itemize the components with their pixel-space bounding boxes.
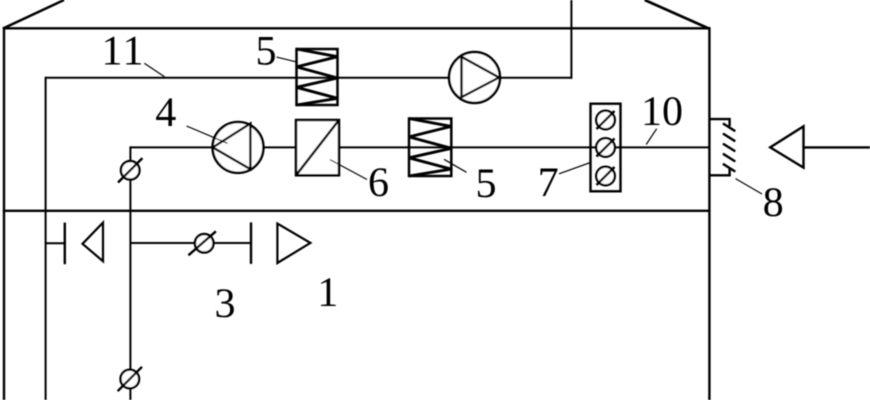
label 3 [217, 289, 234, 317]
wire: supply pipe 11 horizontal [46, 77, 572, 79]
heat exchanger 5 (top) [297, 49, 338, 105]
heat exchanger 5 (middle) [409, 119, 451, 177]
filter 6 [296, 120, 339, 175]
wire: pipe 10 horizontal [130, 146, 709, 148]
leader 4 [187, 126, 228, 143]
leader 6 [330, 160, 367, 180]
leader 10 [646, 129, 657, 145]
leader 11 [144, 63, 164, 76]
flexible inlet 8 [709, 119, 735, 175]
wire: lower branch to tick [130, 242, 251, 244]
wire: stub to left diffuser [46, 242, 65, 244]
roof left slope [3, 0, 64, 29]
label 5 top [258, 37, 275, 65]
valve 3 (branch) [188, 231, 216, 255]
pump (top, roof exhaust) [449, 52, 500, 103]
wire: left riser from pipe 10 [129, 146, 131, 400]
wire: chimney riser through roof [570, 0, 572, 79]
label 11 [105, 37, 141, 65]
building top wall [3, 27, 711, 29]
label 6 [370, 168, 388, 196]
label 7 [540, 169, 557, 197]
label 10 [645, 97, 682, 125]
diffuser (left, exhaust) triangle [83, 223, 104, 262]
label 4 [156, 98, 176, 126]
label 8 [764, 188, 782, 216]
outside air arrow [770, 126, 803, 167]
leader 5 mid [444, 159, 467, 172]
leader 8 [736, 179, 763, 194]
diffuser (left, exhaust) tick [64, 223, 66, 265]
pump 4 [213, 122, 264, 173]
building right wall [708, 27, 710, 400]
wire: pipe 11 left drop [45, 77, 47, 400]
label 1 [321, 278, 336, 306]
floor wall [3, 210, 711, 212]
diffuser 1 tick [250, 222, 252, 264]
diffuser 1 triangle [277, 224, 310, 263]
label 5 mid [478, 170, 495, 198]
wire: outside air line [804, 146, 870, 148]
building left wall [3, 27, 5, 400]
roof right slope [645, 0, 709, 29]
leader 5 top [277, 57, 298, 62]
valve (upper, on left riser) [118, 158, 142, 182]
valve (lower, on left riser) [118, 367, 142, 391]
leader 7 [559, 163, 591, 174]
humidifier 7 [591, 104, 621, 192]
